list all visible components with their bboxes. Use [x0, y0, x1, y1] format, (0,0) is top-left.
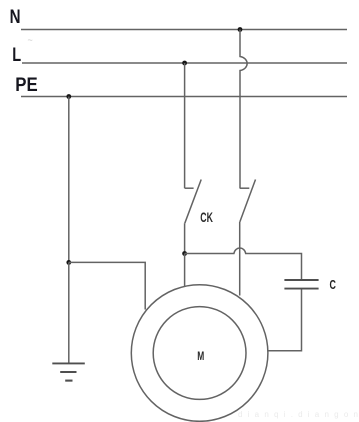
svg-text:L: L	[12, 44, 21, 66]
motor M inner circle	[153, 307, 246, 400]
switch CK pole 2 contact bar	[240, 187, 250, 189]
switch CK pole 1 contact bar	[185, 187, 194, 189]
wire switch pole2 to motor	[239, 222, 241, 296]
svg-text:M: M	[197, 349, 204, 363]
wire junction to ground	[68, 262, 70, 363]
wire junction to motor top	[184, 254, 186, 287]
svg-text:~: ~	[28, 35, 33, 45]
ground symbol bar 3	[65, 380, 72, 382]
switch CK pole 1 blade	[185, 180, 201, 224]
junction on L	[182, 61, 187, 66]
wire switch pole1 to junction	[184, 223, 186, 253]
wire junction to capacitor with hop	[185, 248, 302, 279]
wire N bus	[21, 29, 347, 31]
wire L bus	[22, 62, 347, 64]
junction on PE	[66, 94, 71, 99]
wire from N to switch with hop over L	[240, 30, 247, 189]
switch CK pole 2 blade	[240, 180, 256, 223]
junction on N	[238, 27, 243, 32]
wire PE to junction left	[68, 97, 70, 263]
svg-text:N: N	[10, 6, 21, 28]
junction on PE drop	[66, 260, 71, 265]
wire capacitor to motor right	[268, 289, 302, 350]
ground symbol bar 2	[60, 371, 76, 373]
capacitor C top plate	[284, 279, 318, 281]
capacitor C bottom plate	[284, 288, 318, 290]
svg-text:C: C	[330, 277, 337, 292]
svg-text:PE: PE	[15, 74, 37, 96]
ground symbol bar 1	[52, 362, 85, 364]
wire from L to switch	[184, 63, 186, 188]
svg-text:CK: CK	[200, 209, 213, 225]
motor M outer circle	[131, 285, 268, 422]
wire junction to motor left	[69, 262, 145, 309]
wire PE bus	[21, 96, 347, 98]
junction below switch	[182, 251, 187, 256]
svg-text:d i a n q i . d i a n g o n: d i a n q i . d i a n g o n	[238, 410, 359, 419]
